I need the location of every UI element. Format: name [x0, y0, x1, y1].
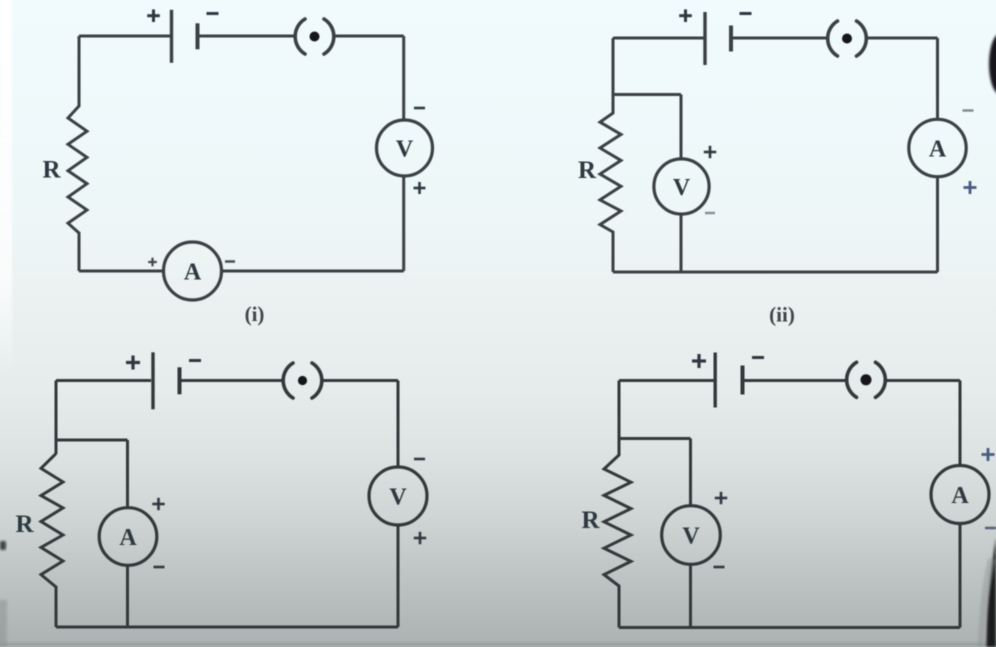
wire bottom right segment [222, 270, 404, 273]
resistor R (ii) zigzag [600, 113, 621, 232]
meter A4 circle [931, 466, 989, 524]
ammeter A4 minus label [985, 527, 996, 530]
wire ammeter A3 to bottom wire [126, 565, 129, 627]
svg-text:A: A [184, 260, 202, 286]
wire right side down to ammeter A4 [959, 381, 962, 466]
ammeter A4 plus label [982, 448, 995, 461]
meter A3 circle [99, 508, 157, 566]
wire voltmeter V3 to bottom-right corner [397, 525, 400, 627]
wire battery B1 to key K1 [200, 35, 295, 38]
battery B3 minus label [189, 359, 201, 362]
wire key K3 to top-right corner [324, 379, 399, 382]
voltmeter V4 minus label [714, 566, 725, 569]
wire bottom [619, 626, 960, 629]
wire right side down to voltmeter V1 [402, 36, 405, 121]
svg-text:V: V [673, 175, 691, 201]
voltmeter V3 minus label [414, 458, 425, 461]
meter V3 circle [369, 467, 427, 525]
meter A1 circle [164, 242, 222, 300]
wire ammeter branch horizontal [56, 439, 128, 442]
voltmeter V4 plus label [715, 492, 727, 504]
ammeter A2 plus label [964, 181, 977, 194]
decorative dark dash left edge [0, 541, 6, 550]
battery B1 plus label [147, 9, 160, 22]
resistor R (iii) zigzag [41, 454, 63, 587]
resistor R (i) zigzag [68, 106, 87, 233]
wire bottom [56, 626, 398, 629]
wire right side down to ammeter A2 [936, 38, 939, 120]
svg-text:R: R [581, 507, 600, 534]
meter V2 circle [654, 159, 709, 214]
wire key K2 to top-right corner [868, 37, 938, 40]
voltmeter V2 plus label [704, 146, 716, 158]
meter V4 circle [662, 506, 721, 565]
wire left above resistor R [78, 36, 81, 107]
wire right side down to voltmeter V3 [397, 381, 400, 468]
voltmeter V1 plus label [414, 182, 426, 194]
battery B1 negative plate [196, 23, 200, 49]
battery B4 negative plate [741, 366, 745, 395]
key K2 plug dot [842, 34, 852, 44]
battery B4 positive plate [714, 353, 717, 408]
svg-text:R: R [15, 511, 34, 538]
wire top-left to battery B2 [613, 37, 704, 40]
wire bottom left segment [79, 270, 164, 273]
wire key K4 to top-right corner [887, 379, 960, 382]
wire left below resistor R [55, 586, 58, 627]
key K3 plug dot [298, 376, 307, 385]
decorative dark silhouette bottom-right edge [986, 538, 996, 647]
circuit (iv) [581, 353, 996, 628]
wire battery B4 to key K4 [745, 379, 847, 382]
wire left below resistor R [618, 585, 621, 628]
wire ammeter A4 to bottom-right corner [959, 524, 962, 628]
svg-text:R: R [42, 157, 61, 184]
circuit (ii) [578, 9, 977, 326]
battery B1 positive plate [170, 10, 173, 63]
svg-text:R: R [578, 157, 597, 184]
meter V1 circle [377, 120, 433, 176]
decorative dark blob top-right edge [989, 34, 996, 94]
wire voltmeter branch down to V2 [680, 95, 683, 160]
battery B4 minus label [752, 356, 764, 359]
key K3 right contact arc [312, 363, 322, 398]
wire top-left to battery B4 [619, 379, 714, 382]
battery B2 plus label [679, 9, 692, 22]
ammeter A1 plus label [148, 258, 157, 267]
key K2 left contact arc [828, 21, 838, 56]
wire battery B2 to key K2 [733, 37, 827, 40]
battery B2 positive plate [703, 12, 706, 65]
battery B4 plus label [692, 354, 706, 368]
wire voltmeter V1 to bottom-right corner [402, 176, 405, 271]
svg-text:V: V [682, 524, 700, 550]
wire top-left to battery B1 [79, 35, 170, 38]
battery B2 minus label [740, 12, 752, 15]
battery B3 negative plate [178, 367, 182, 394]
meter A2 circle [909, 119, 966, 176]
svg-text:A: A [119, 525, 137, 551]
ammeter A3 minus label [154, 566, 165, 569]
ammeter A1 minus label [225, 260, 235, 262]
key K4 plug dot [861, 374, 872, 385]
svg-text:V: V [396, 137, 414, 163]
battery B1 minus label [207, 12, 219, 15]
circuit (i) [42, 9, 432, 326]
wire key K1 to top-right corner [336, 35, 404, 38]
wire left below resistor R [78, 232, 81, 271]
key K1 right contact arc [324, 19, 334, 54]
wire top-left to battery B3 [56, 379, 151, 382]
wire voltmeter branch horizontal [613, 93, 681, 96]
key K1 left contact arc [295, 19, 305, 54]
ammeter A2 minus label [963, 109, 974, 111]
svg-text:(ii): (ii) [769, 303, 795, 327]
circuit (iii) [15, 352, 427, 627]
key K4 right contact arc [876, 362, 886, 397]
battery B2 negative plate [729, 26, 733, 52]
wire battery B3 to key K3 [182, 379, 283, 382]
wire left below resistor R [612, 231, 615, 272]
wire voltmeter V2 to bottom wire [680, 214, 683, 272]
wire left above resistor R [612, 38, 615, 114]
battery B3 plus label [126, 356, 140, 370]
wire bottom [613, 271, 938, 274]
decorative shaded left edge bottom [0, 600, 7, 647]
svg-text:(i): (i) [245, 302, 265, 326]
wire ammeter branch down to A3 [126, 440, 129, 508]
wire left above resistor R [55, 381, 58, 455]
voltmeter V3 plus label [414, 532, 426, 544]
wire voltmeter branch down to V4 [689, 439, 692, 507]
key K3 left contact arc [283, 363, 293, 398]
resistor R (iv) zigzag [604, 455, 631, 586]
key K1 plug dot [310, 32, 320, 42]
ammeter A3 plus label [152, 498, 164, 510]
wire left above resistor R [618, 381, 621, 457]
voltmeter V1 minus label [414, 107, 425, 110]
voltmeter V2 minus label [705, 212, 715, 214]
wire voltmeter V4 to bottom wire [689, 565, 692, 628]
svg-text:V: V [389, 485, 407, 511]
key K2 right contact arc [857, 21, 867, 56]
svg-text:A: A [951, 483, 969, 509]
wire ammeter A2 to bottom-right corner [936, 177, 939, 273]
wire voltmeter branch horizontal [619, 437, 691, 440]
battery B3 positive plate [151, 352, 154, 409]
svg-text:A: A [929, 137, 947, 163]
key K4 left contact arc [847, 362, 857, 397]
